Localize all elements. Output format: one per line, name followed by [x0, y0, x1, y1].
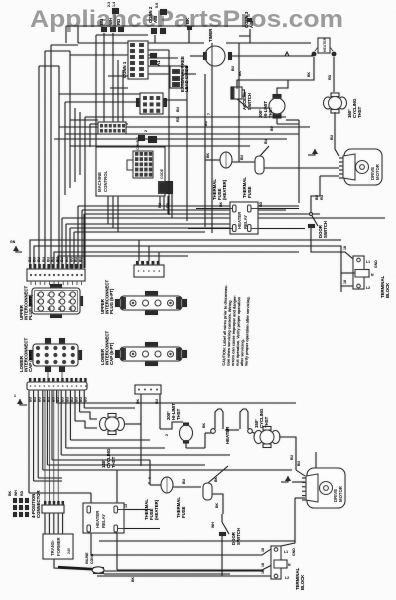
- connector label top-a: [107, 2, 119, 26]
- connector strip J2: [134, 240, 164, 277]
- wire th5 down: [279, 437, 296, 470]
- wire top h3: [39, 45, 51, 80]
- wire mc label drops: [158, 202, 170, 208]
- connector label top-b: [155, 3, 167, 26]
- connector label small top: [185, 17, 192, 43]
- connector label cluster left-top: [99, 18, 124, 50]
- wire top h1b: [226, 42, 311, 44]
- wire bus v x239: [238, 56, 240, 155]
- wire right v x299: [286, 120, 299, 203]
- wire bus v x169: [168, 50, 170, 215]
- switch ACCESS-SW: [231, 80, 252, 110]
- connector comb J5: [42, 501, 64, 513]
- wire right v x286: [237, 80, 288, 89]
- wire mid links: [54, 94, 310, 146]
- wire doorsw link: [212, 494, 223, 514]
- wire left v x96: [96, 35, 148, 147]
- wire upper-left extra h: [70, 119, 98, 121]
- wire left v x70: [69, 51, 71, 188]
- wire fan-out bundle to plug strip: [30, 194, 385, 268]
- switch DOOR-SW: [308, 196, 328, 238]
- wire heater to th5: [252, 432, 256, 434]
- relay K2 HEATER RELAY: [83, 503, 124, 533]
- wire left corner h: [39, 45, 78, 66]
- connector strip J3: [27, 378, 88, 402]
- transformer T1: [43, 534, 73, 559]
- wire heater down to cyc: [328, 57, 334, 92]
- timer motor M1: [190, 28, 251, 76]
- heater HTR2: [202, 409, 252, 444]
- wire strip leads: [104, 43, 123, 122]
- wire lower h-runs: [91, 541, 295, 576]
- wire fuses feed: [149, 460, 151, 485]
- wire left v x45-down: [44, 68, 46, 218]
- wire j2 feeds: [0, 0, 1, 1]
- wire access-hilimit link: [237, 99, 299, 124]
- connector UPPER INTERCONNECT PLUG 6PT: [100, 279, 187, 315]
- connector small boxes right of CONN-1: [150, 53, 161, 66]
- node arrow A2: [308, 149, 318, 155]
- connector strip J1: [27, 256, 85, 285]
- relay K1 HEATER RELAY: [230, 202, 258, 234]
- connector bits below guide: [138, 130, 157, 143]
- connector label CONN-3 top: [244, 11, 254, 43]
- connector UPPER INTERCONNECT PLUG 8PT: [19, 284, 83, 320]
- wire th3 leads: [140, 415, 142, 424]
- wire left v x51-down: [50, 60, 52, 208]
- wire j4 to hilimit: [160, 422, 183, 429]
- wire left v x90: [90, 124, 128, 147]
- connector LOWER INTERCONNECT CAP 6PT: [100, 330, 187, 366]
- wire top h2: [70, 54, 150, 56]
- wire cap8-j3 stubs: [48, 372, 62, 382]
- connector block ext: [170, 56, 189, 122]
- wire left v x39-down: [38, 80, 40, 222]
- thermostat 200-hi-limit TH4: [166, 403, 193, 448]
- wire top rail: [66, 26, 250, 43]
- wire th4 to heater: [186, 433, 213, 448]
- wire motor lower leads: [292, 452, 316, 541]
- connector CONN-1 grid inside control: [127, 137, 153, 178]
- wire left v x65: [65, 76, 128, 195]
- ground G1: [10, 240, 22, 252]
- wire motor to right: [239, 43, 313, 56]
- connector J4: [135, 385, 169, 466]
- thermal fuse F4: [176, 466, 228, 518]
- wire cyc down: [330, 112, 335, 149]
- machine control U1: [96, 147, 165, 196]
- wire lower drops: [29, 390, 84, 493]
- terminal block TB1: [353, 256, 390, 298]
- wire tb2 leads: [261, 541, 295, 574]
- wire left v x59: [58, 66, 60, 268]
- connector 4-POSITION: [8, 489, 41, 518]
- wire fuse link: [205, 155, 299, 168]
- connector LOWER INTERCONNECT CAP 8PT: [19, 337, 82, 372]
- thermostat 150-cycling TH5: [254, 408, 280, 447]
- wire heavy pair: [58, 567, 263, 582]
- wire heater top lead: [239, 29, 313, 56]
- thermal fuse (heater) F1: [205, 152, 255, 200]
- thermostat 160-cycling TH1: [324, 93, 363, 118]
- ground G2: [14, 394, 27, 405]
- thermostat 200-hi-limit TH2: [258, 80, 288, 131]
- wire motor leads: [299, 149, 339, 196]
- wire relay feeds: [148, 460, 150, 483]
- thermal fuse (heater) F3: [144, 476, 201, 520]
- thermostat 140-cycling TH3: [100, 414, 142, 469]
- wire conn1 right leads: [148, 50, 196, 74]
- wire bus v x205: [204, 74, 206, 227]
- wire heater left lead down: [288, 57, 314, 80]
- wire relay K2 leads: [91, 470, 160, 570]
- thermal fuse F2: [242, 138, 269, 198]
- connector CONN-1 block: [122, 41, 148, 79]
- wire tb leads: [311, 194, 355, 292]
- wire bus v x187: [186, 66, 188, 221]
- wire left v x85: [84, 117, 86, 268]
- wire left v x75: [75, 88, 128, 182]
- wire comb drops: [45, 513, 63, 534]
- label block legend: [158, 168, 173, 194]
- wire inline conn: [54, 552, 104, 574]
- connector lead-guide block: [136, 93, 167, 114]
- wire bus v x212: [211, 43, 213, 233]
- motor DRIVE M2: [339, 149, 382, 185]
- note caution text: [222, 284, 251, 366]
- connector label CONN-2 top: [148, 6, 166, 43]
- wire relay K1 leads: [188, 201, 305, 228]
- motor DRIVE M3: [302, 468, 345, 508]
- node arrow A1: [281, 476, 291, 482]
- wire nest verticals to strip: [39, 208, 51, 268]
- wire lower turns: [29, 390, 296, 501]
- wire top h1: [78, 42, 204, 44]
- wire left v x80: [79, 112, 81, 175]
- switch DOOR-SW2: [211, 514, 241, 546]
- heater HTR1: [312, 37, 337, 56]
- terminal block TB2: [271, 546, 305, 590]
- connector 2-row pin strip above control: [98, 122, 126, 134]
